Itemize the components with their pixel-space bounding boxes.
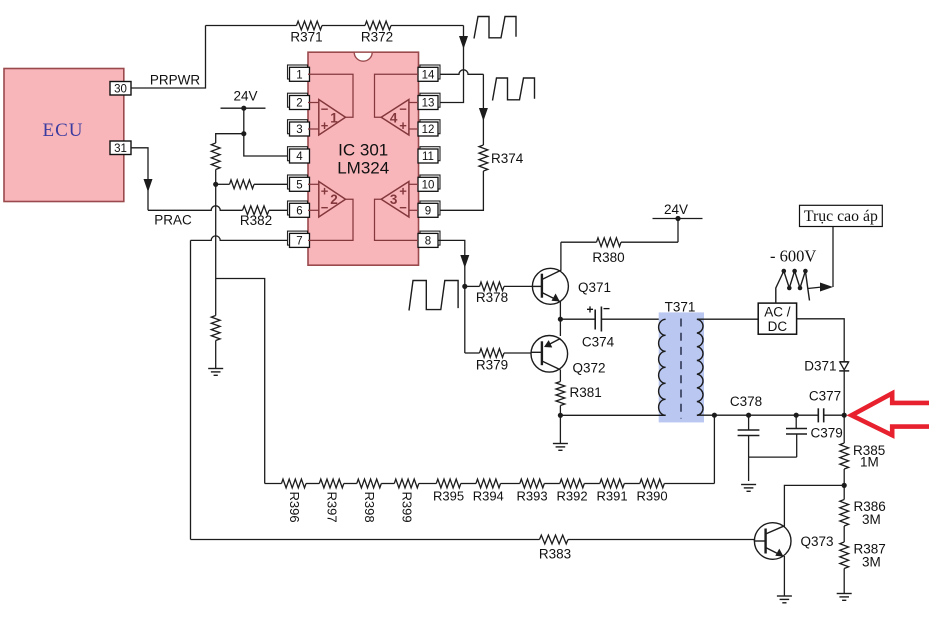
resistor R380 [561, 238, 678, 265]
svg-text:R372: R372 [361, 30, 393, 45]
ground G3 [741, 485, 756, 492]
svg-text:13: 13 [422, 98, 435, 110]
svg-text:4: 4 [390, 110, 398, 125]
label IC301 [338, 141, 388, 160]
wire ACDC to HV rail [797, 319, 845, 362]
svg-text:−: − [399, 200, 407, 215]
label T371 [665, 300, 696, 315]
wire drive drop [464, 286, 466, 353]
wire node to C374 [560, 318, 595, 320]
wire R383 left [191, 539, 540, 541]
svg-text:6: 6 [296, 206, 302, 218]
label LM324 [337, 159, 389, 178]
pin 7 box [288, 231, 310, 248]
trace pin9 to U1C [409, 209, 418, 211]
label 24V left [233, 89, 257, 104]
wire chain riser [713, 415, 715, 483]
svg-text:+: + [399, 118, 407, 133]
svg-text:4: 4 [296, 151, 303, 163]
AC-DC converter box [758, 303, 796, 334]
trace pin2 to U1A [308, 102, 319, 104]
red pointer arrow [852, 393, 929, 435]
wire resistor to ground [215, 341, 217, 369]
trace pin8 to U1C out [375, 199, 419, 240]
wire to node A [215, 170, 217, 185]
wire bottom rail left [560, 414, 665, 416]
trace pin7 to U1B out [308, 199, 353, 240]
node HV out [842, 413, 847, 418]
svg-text:R399: R399 [400, 492, 415, 523]
wire R387 to ground [843, 569, 845, 594]
wire secondary bottom rail [749, 414, 819, 416]
IC U301 body [308, 52, 419, 265]
resistor R378 [465, 282, 533, 305]
resistor R379 [465, 349, 531, 358]
ground G2 [553, 444, 568, 451]
op-amp U1B [319, 182, 346, 218]
wire C378 bottom link [749, 456, 797, 458]
flyback coil [776, 269, 833, 303]
svg-text:R383: R383 [539, 547, 571, 562]
transistor Q372 [531, 336, 606, 376]
svg-text:R380: R380 [592, 250, 624, 265]
svg-text:30: 30 [114, 83, 127, 95]
resistor grounded vertical [211, 316, 220, 341]
label Truc cao ap box [800, 205, 883, 226]
squarewave sw1 [474, 17, 516, 39]
node C378 top [746, 413, 751, 418]
wire R381 to bottom rail [559, 406, 561, 416]
wire top rail left [206, 25, 297, 27]
svg-text:3: 3 [296, 124, 302, 136]
trace pin6 to U1B [308, 209, 319, 211]
svg-text:R392: R392 [557, 489, 588, 504]
capacitor C374 [582, 302, 615, 350]
svg-text:10: 10 [422, 180, 435, 192]
squarewave sw3 [409, 281, 458, 311]
wire node to chain corner [216, 279, 265, 484]
svg-text:IC 301: IC 301 [338, 141, 388, 160]
trace pin1 to U1A out [308, 74, 353, 117]
24V left rail bar [221, 107, 266, 109]
svg-text:Trục cao áp: Trục cao áp [804, 208, 878, 225]
svg-text:24V: 24V [664, 202, 688, 217]
wire 24V to pin4 [244, 108, 290, 156]
svg-text:11: 11 [422, 151, 434, 163]
svg-text:2: 2 [330, 192, 338, 207]
ground G4 [777, 596, 792, 603]
node chain riser [712, 413, 717, 418]
svg-text:Q373: Q373 [801, 534, 834, 549]
pin 2 box [288, 93, 310, 110]
svg-text:C377: C377 [809, 389, 841, 404]
wire R380 to 24V [677, 219, 679, 243]
ECU block [4, 69, 124, 202]
svg-text:3M: 3M [862, 512, 881, 527]
svg-text:R398: R398 [362, 492, 377, 523]
wire Q371 emitter [559, 302, 561, 320]
pin 9 box [418, 201, 440, 218]
wire node A down [215, 184, 217, 278]
ground G5 [837, 594, 852, 601]
svg-text:+: + [586, 303, 593, 317]
wire R374 drop [479, 74, 488, 145]
svg-text:9: 9 [425, 206, 431, 218]
wire C374 to T371 [601, 318, 665, 320]
node 24V right [675, 216, 680, 221]
svg-text:LM324: LM324 [337, 159, 389, 178]
svg-text:−: − [399, 102, 407, 117]
wire pin7 drop long [190, 240, 192, 539]
svg-text:Q372: Q372 [573, 361, 606, 376]
pin 13 box [418, 93, 440, 110]
svg-text:−: − [321, 200, 329, 215]
op-amp U1C [381, 182, 409, 218]
resistor R383 [539, 535, 571, 561]
wire top drop to pin13 [439, 26, 469, 103]
svg-text:R396: R396 [287, 492, 302, 523]
trace pin14 to U1D out [375, 74, 419, 117]
svg-text:D371: D371 [804, 359, 836, 374]
pin 10 box [418, 175, 440, 192]
svg-text:R371: R371 [290, 30, 322, 45]
capacitor C377 [809, 389, 844, 423]
node pin4 branch [241, 131, 246, 136]
svg-text:8: 8 [425, 236, 431, 248]
svg-text:2: 2 [296, 98, 302, 110]
wire pin31 to PRAC [131, 148, 153, 211]
capacitor C379 [786, 415, 843, 457]
transformer T371 shading [659, 312, 704, 422]
wire PRAC with hop [148, 206, 243, 211]
pin 14 box [418, 65, 440, 82]
wire divider to Q373 collector [784, 485, 844, 527]
pin 6 box [288, 201, 310, 218]
svg-text:+: + [321, 184, 329, 199]
T371 secondary winding [697, 319, 703, 415]
svg-text:7: 7 [296, 236, 302, 248]
squarewave sw2 [493, 78, 535, 101]
capacitor C378 [730, 394, 762, 457]
label PRPWR [150, 73, 201, 88]
wire bottom node to ground [559, 415, 561, 443]
label -600V [770, 247, 816, 266]
wire pin30 to top rail [131, 26, 206, 89]
svg-text:14: 14 [422, 70, 435, 82]
node A [213, 182, 218, 187]
svg-text:+: + [321, 118, 329, 133]
op-amp U1A [319, 100, 346, 136]
svg-text:−: − [603, 302, 610, 316]
label PRAC [154, 213, 192, 228]
svg-text:R374: R374 [491, 151, 524, 166]
transistor Q373 [754, 523, 833, 560]
resistor R372 [361, 21, 393, 44]
node 24V left [241, 106, 246, 111]
svg-text:24V: 24V [233, 89, 257, 104]
svg-text:1: 1 [330, 110, 338, 125]
svg-text:R393: R393 [517, 489, 548, 504]
svg-text:Q371: Q371 [578, 280, 611, 295]
svg-text:PRAC: PRAC [154, 213, 192, 228]
svg-text:+: + [399, 184, 407, 199]
wire between R371 R372 [322, 25, 365, 27]
resistor to pin5 [216, 180, 290, 189]
svg-text:1M: 1M [860, 455, 879, 470]
svg-text:C374: C374 [582, 335, 615, 350]
node pin8 drive [462, 284, 467, 289]
wire branch to left resistor [216, 134, 244, 143]
diode D371 [804, 359, 849, 374]
svg-text:ECU: ECU [43, 120, 84, 141]
wire R374 to pin9 [439, 171, 484, 210]
svg-text:R395: R395 [433, 489, 464, 504]
node bottom rail [558, 413, 563, 418]
trace pin3 to U1A [308, 128, 319, 130]
svg-text:C379: C379 [811, 426, 843, 441]
ECU pin 30 [110, 82, 131, 96]
resistor chain R396-R390 [265, 479, 715, 522]
wire T371 secondary bottom [697, 414, 749, 416]
wire R382 to pin6 [269, 209, 290, 211]
svg-text:R379: R379 [476, 358, 508, 373]
resistor R382 [240, 206, 272, 228]
node push-pull out [558, 317, 563, 322]
24V right rail bar [653, 218, 703, 220]
svg-text:R382: R382 [240, 213, 272, 228]
T371 core dashed line [680, 319, 682, 419]
pin 11 box [418, 147, 440, 164]
svg-text:3: 3 [390, 192, 398, 207]
wire top rail right [391, 25, 464, 27]
wire pin8 drop [439, 240, 470, 286]
trace pin5 to U1B [308, 183, 319, 185]
wire C378 to ground [748, 457, 750, 481]
pin 8 box [418, 231, 440, 248]
svg-text:1: 1 [296, 70, 302, 82]
resistor R387 [840, 542, 886, 570]
wire to grounded resistor [215, 279, 217, 316]
svg-text:12: 12 [422, 124, 435, 136]
trace pin13 to U1D [409, 102, 418, 104]
resistor R386 [840, 499, 886, 527]
ground G1 [208, 369, 223, 376]
wire R385 to node [843, 469, 845, 485]
svg-text:AC /: AC / [764, 305, 791, 320]
svg-text:R391: R391 [597, 489, 628, 504]
wire T371 secondary top [697, 318, 758, 320]
transistor Q371 [532, 268, 611, 304]
svg-text:PRPWR: PRPWR [150, 73, 201, 88]
wire D371 to C377 node [843, 371, 845, 415]
pin 5 box [288, 175, 310, 192]
wire pin7 with hop [191, 236, 290, 241]
label R379 [476, 358, 508, 373]
op-amp U1D [381, 100, 409, 136]
svg-text:R390: R390 [637, 489, 668, 504]
svg-text:T371: T371 [665, 300, 696, 315]
node divider [842, 483, 847, 488]
pin 12 box [418, 120, 440, 137]
T371 primary winding [659, 319, 666, 415]
node C379 top [794, 413, 799, 418]
wire R386 to R387 [843, 526, 845, 542]
pin 3 box [288, 120, 310, 137]
pin 4 box [288, 147, 310, 164]
resistor R381 [556, 382, 602, 406]
svg-text:R394: R394 [473, 489, 504, 504]
wire box drop [832, 227, 834, 288]
wire Q371 collector [560, 242, 562, 271]
svg-text:DC: DC [768, 319, 788, 334]
label 24V right [664, 202, 688, 217]
resistor R385 [840, 443, 885, 470]
svg-text:R381: R381 [570, 385, 602, 400]
pin 1 box [288, 65, 310, 82]
wire to R385 [843, 415, 845, 443]
trace pin10 to U1C [409, 183, 418, 185]
resistor R374 [479, 145, 524, 171]
wire Q372 collector [559, 370, 561, 382]
wire node to R386 [843, 485, 845, 499]
trace pin12 to U1D [409, 128, 418, 130]
wire node to Q372 [559, 319, 561, 336]
svg-text:C378: C378 [730, 394, 762, 409]
svg-text:3M: 3M [862, 555, 881, 570]
svg-text:−: − [321, 102, 329, 117]
resistor R371 [290, 21, 322, 44]
svg-text:31: 31 [114, 143, 127, 155]
wire Q373 emitter [783, 556, 785, 596]
resistor bias vertical [211, 143, 220, 170]
ECU pin 31 [110, 141, 131, 155]
svg-text:5: 5 [296, 180, 302, 192]
svg-text:- 600V: - 600V [770, 247, 816, 266]
svg-text:R397: R397 [325, 492, 340, 523]
svg-text:R378: R378 [476, 290, 508, 305]
wire R383 to Q373 [568, 540, 754, 542]
wire pin14 east [439, 70, 484, 75]
